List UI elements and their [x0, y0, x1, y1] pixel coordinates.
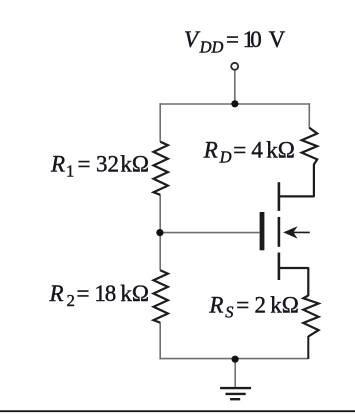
- svg-text:RS=2kΩ: RS=2kΩ: [208, 292, 298, 321]
- svg-text:R1=32kΩ: R1=32kΩ: [50, 151, 149, 180]
